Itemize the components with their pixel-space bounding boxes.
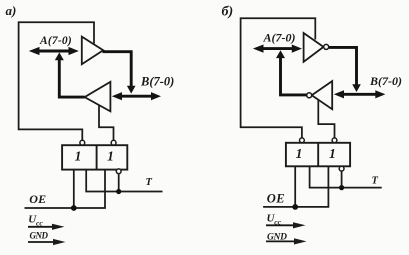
svg-text:1: 1: [107, 149, 114, 164]
svg-text:B(7-0): B(7-0): [140, 74, 174, 88]
svg-text:T: T: [372, 176, 379, 187]
svg-text:а): а): [6, 3, 17, 18]
svg-text:T: T: [146, 177, 153, 188]
svg-text:б): б): [222, 4, 234, 19]
svg-text:OE: OE: [29, 192, 46, 206]
svg-text:1: 1: [75, 149, 82, 164]
svg-text:OE: OE: [267, 192, 285, 206]
svg-text:1: 1: [296, 146, 303, 161]
svg-text:1: 1: [329, 146, 336, 161]
svg-text:A(7-0): A(7-0): [263, 30, 296, 44]
svg-text:B(7-0): B(7-0): [369, 74, 402, 88]
svg-text:A(7-0): A(7-0): [39, 35, 72, 47]
svg-text:GND: GND: [30, 231, 49, 241]
